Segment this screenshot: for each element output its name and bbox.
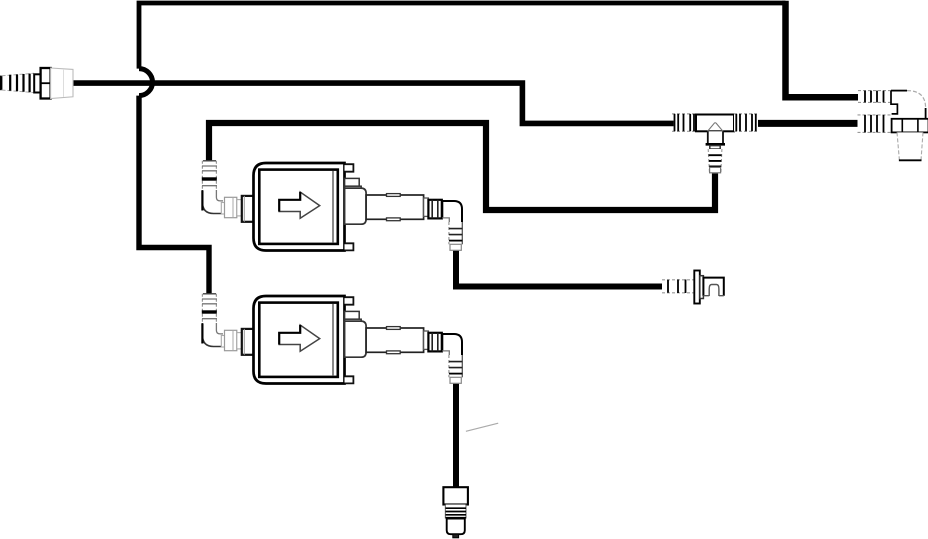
- elbow body: [891, 91, 926, 124]
- tee bottom barb: [708, 149, 722, 173]
- check-valve ribbed sleeve: [662, 280, 694, 294]
- elbow bottom ribbed sleeve: [858, 115, 892, 132]
- hose: pump P1 outlet to check-valve fitting: [456, 250, 666, 287]
- elbow compression nut: [892, 119, 928, 133]
- check-valve clip bracket: [703, 278, 723, 296]
- solenoid/sensor connector (bottom): [443, 487, 468, 538]
- connector cup: [447, 519, 465, 535]
- connector washer stack: [445, 505, 466, 519]
- hose: inlet feed from barb connector to tee: [73, 83, 678, 123]
- tee left ribbed sleeve: [672, 114, 696, 131]
- elbow top ribbed sleeve: [858, 91, 891, 103]
- tee right ribbed sleeve: [734, 114, 758, 131]
- hose: pump P1 inlet loop from tee barb: [209, 123, 715, 210]
- check-valve step: [700, 276, 704, 299]
- hose: crossover hop on left vertical run: [139, 69, 153, 96]
- right elbow connector assembly: [858, 91, 928, 161]
- hose: tee to right elbow connector: [755, 120, 862, 127]
- tee fitting: [672, 114, 758, 173]
- pump P1: [202, 161, 463, 251]
- hose: top loop (supply manifold): [137, 3, 786, 69]
- check-valve flange plate: [694, 271, 700, 304]
- connector body block: [443, 487, 468, 504]
- tee body: [696, 115, 734, 132]
- leader line (callout): [466, 423, 498, 431]
- elbow lower cup: [897, 132, 923, 160]
- hose: left vertical run down to pump P2 inlet: [139, 96, 209, 296]
- pump P2: [202, 294, 463, 384]
- tee internal cone: [708, 123, 724, 132]
- inline check-valve fitting (mid right): [662, 271, 724, 304]
- barbed hose connector (left inlet): [1, 68, 73, 99]
- tee bottom stub: [706, 131, 725, 149]
- connector tip nub: [453, 534, 459, 538]
- hose: pump P2 outlet down to solenoid connector: [453, 383, 459, 489]
